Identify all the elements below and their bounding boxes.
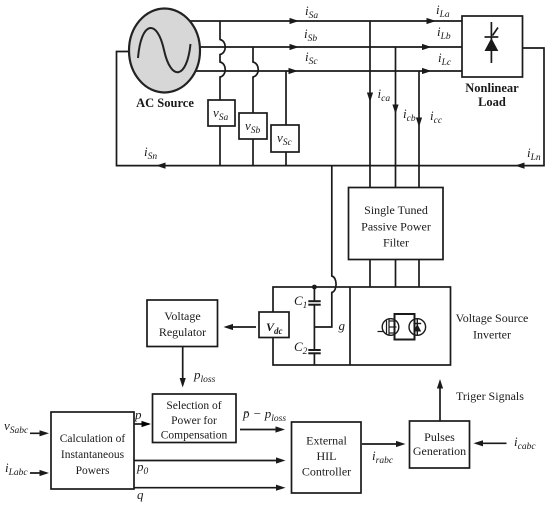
nonlinear load box	[462, 16, 523, 77]
selection of power box	[153, 394, 237, 443]
svg-text:ploss: ploss	[193, 367, 216, 385]
box vSb	[239, 113, 267, 139]
switch bridge rectangle	[395, 314, 415, 340]
arrow iLc	[422, 68, 432, 74]
svg-text:Single Tuned: Single Tuned	[364, 203, 428, 217]
svg-text:icabc: icabc	[514, 434, 536, 452]
transistor Q1 internals	[378, 320, 397, 335]
transistor Q1 (MOSFET in circle)	[382, 319, 399, 336]
AC source	[129, 9, 200, 111]
arrow Vdc to voltage regulator	[224, 324, 257, 330]
arrow ica down	[367, 93, 373, 103]
svg-text:Load: Load	[478, 95, 506, 109]
svg-text:dc: dc	[274, 326, 283, 336]
wire neutral return	[117, 48, 545, 166]
svg-text:Generation: Generation	[413, 444, 466, 458]
svg-text:Controller: Controller	[302, 465, 351, 479]
arrow iLabc input	[30, 470, 49, 476]
arrow iLn left	[515, 163, 525, 169]
svg-text:iLn: iLn	[527, 145, 541, 163]
arrow trigger signals up	[437, 379, 443, 421]
wire icc vertical	[418, 71, 420, 188]
svg-text:iLb: iLb	[437, 24, 451, 42]
Vdc box	[259, 312, 289, 338]
wire vSa drop with hops	[220, 21, 225, 166]
svg-text:Inverter: Inverter	[473, 328, 511, 342]
svg-text:iSb: iSb	[304, 26, 317, 44]
node junction dot	[312, 285, 317, 290]
arrow ploss down	[180, 347, 186, 388]
svg-text:p: p	[134, 407, 142, 422]
box vSa	[208, 100, 235, 126]
svg-text:Triger Signals: Triger Signals	[456, 389, 524, 403]
svg-text:Compensation: Compensation	[161, 430, 228, 442]
svg-text:vSabc: vSabc	[4, 418, 29, 436]
arrow p to selection box	[134, 421, 151, 427]
capacitor C2	[308, 350, 320, 365]
box labels	[60, 81, 529, 479]
wire icb vertical	[395, 47, 397, 188]
wire phase C	[165, 70, 462, 72]
svg-text:External: External	[306, 434, 347, 448]
wire vSb drop with hop	[253, 47, 258, 166]
wire phase A	[165, 20, 462, 22]
wire filter to VSI leg c	[418, 260, 420, 288]
svg-text:q: q	[137, 487, 144, 502]
arrows on wires	[156, 18, 525, 169]
VSI inner divider	[349, 287, 351, 365]
arrow iSa	[290, 18, 300, 24]
VSI internals	[308, 285, 425, 365]
nonlinear load diode	[485, 22, 499, 63]
wire neutral to node g with hop	[314, 166, 336, 327]
svg-text:irabc: irabc	[372, 448, 394, 466]
pulses generation box	[410, 421, 470, 468]
svg-text:iSc: iSc	[305, 49, 318, 67]
svg-text:Selection of: Selection of	[166, 400, 221, 412]
box vSc	[271, 125, 299, 152]
arrow icb down	[392, 105, 398, 115]
arrow iSn left	[156, 163, 166, 169]
arrow irabc to pulses	[362, 441, 406, 447]
svg-text:ica: ica	[378, 86, 391, 104]
arrow iLb	[422, 44, 432, 50]
svg-text:Nonlinear: Nonlinear	[465, 81, 519, 95]
wire filter to VSI leg a	[369, 260, 371, 288]
wire phase B	[165, 46, 462, 48]
voltage source inverter box U1	[273, 287, 451, 365]
capacitor C1	[308, 287, 320, 350]
arrow iSb	[290, 44, 300, 50]
svg-text:Voltage Source: Voltage Source	[456, 311, 529, 325]
svg-text:Voltage: Voltage	[164, 309, 200, 323]
arrow q to HIL	[134, 485, 286, 491]
voltage regulator box	[147, 300, 218, 347]
svg-text:icc: icc	[430, 108, 443, 126]
svg-text:Regulator: Regulator	[159, 325, 206, 339]
svg-text:Instantaneous: Instantaneous	[61, 449, 125, 461]
svg-text:AC Source: AC Source	[136, 96, 194, 110]
arrow iLa	[427, 18, 437, 24]
svg-text:Pulses: Pulses	[424, 430, 455, 444]
svg-text:p̄ − ploss: p̄ − ploss	[242, 406, 286, 424]
svg-text:iLc: iLc	[438, 50, 452, 68]
svg-text:Filter: Filter	[383, 236, 409, 250]
diode D1 internals	[413, 319, 421, 336]
diode D1 (in circle)	[409, 319, 426, 336]
calculation box	[51, 412, 134, 489]
svg-text:iLa: iLa	[436, 2, 450, 20]
svg-text:Power for: Power for	[171, 415, 217, 427]
wire ica vertical	[369, 21, 371, 188]
svg-text:icb: icb	[403, 106, 416, 124]
arrow p0 to HIL	[134, 457, 286, 463]
arrow icabc to pulses	[474, 440, 507, 446]
svg-text:p0: p0	[136, 459, 149, 477]
arrow iSc	[289, 68, 299, 74]
svg-text:g: g	[339, 318, 346, 333]
single tuned passive power filter box	[349, 188, 444, 260]
svg-text:iLabc: iLabc	[5, 460, 28, 478]
wire filter to VSI leg b	[395, 260, 397, 288]
svg-text:iSn: iSn	[144, 144, 157, 162]
arrow p-ploss to HIL	[240, 426, 285, 432]
svg-text:iSa: iSa	[305, 3, 318, 21]
external HIL controller box	[292, 422, 362, 493]
arrow vSabc input	[30, 430, 49, 436]
svg-text:Powers: Powers	[76, 465, 110, 477]
arrow icc down	[416, 118, 422, 128]
svg-text:Calculation of: Calculation of	[60, 433, 126, 445]
svg-text:HIL: HIL	[317, 449, 337, 463]
wire vSc drop	[285, 71, 287, 166]
svg-text:Passive Power: Passive Power	[361, 220, 431, 234]
